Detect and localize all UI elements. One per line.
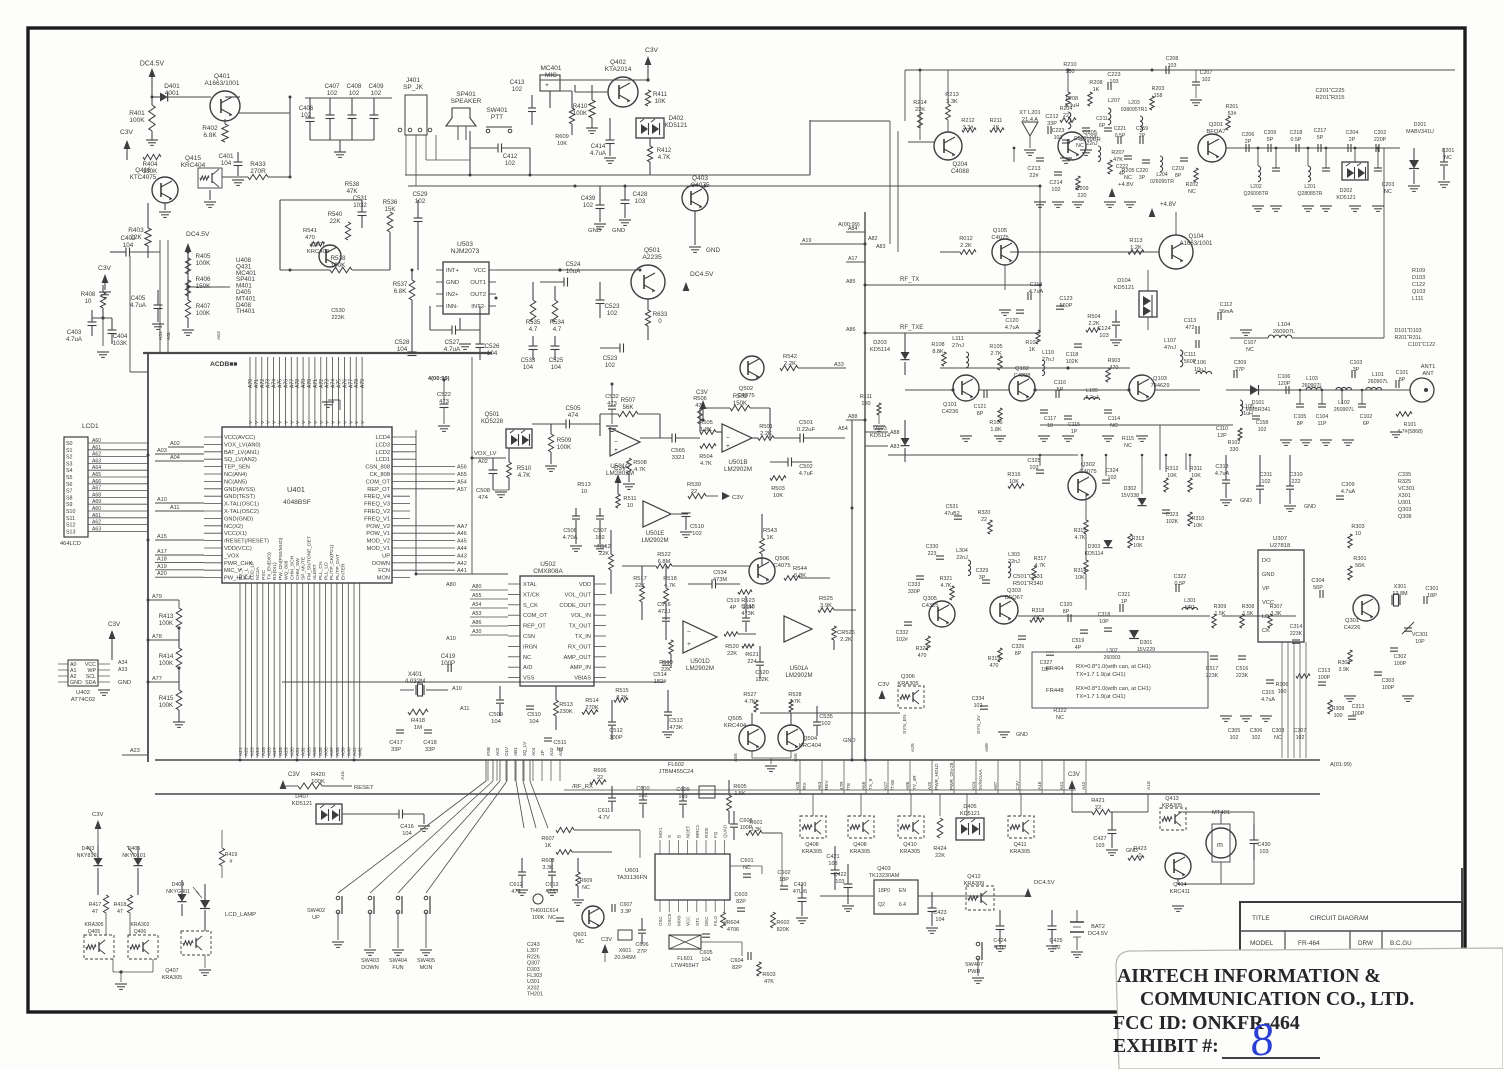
svg-text:C612: C612 [509,882,522,888]
resistor R525 [818,608,834,613]
svg-text:NC: NC [548,915,556,921]
svg-text:C419: C419 [441,653,456,660]
svg-text:S9: S9 [66,502,73,508]
svg-text:EN: EN [899,888,906,894]
capacitor C116 [1055,390,1057,398]
svg-text:Q403: Q403 [877,866,890,872]
resistor R107 [1036,330,1040,344]
svg-text:102: 102 [974,703,983,709]
resistor R609 [576,872,580,886]
svg-text:A65: A65 [861,781,866,790]
svg-text:A61: A61 [92,445,101,451]
transistor Q205 FET [1058,132,1086,160]
svg-text:A79: A79 [152,594,162,600]
svg-text:C103: C103 [1350,360,1363,366]
svg-text:102: 102 [327,90,338,97]
diode D302 [1138,498,1147,506]
svg-text:A41: A41 [352,747,358,756]
svg-text:Q601: Q601 [573,932,586,938]
svg-text:1K: 1K [1093,87,1100,93]
ground rf out [1280,439,1292,441]
svg-text:A38: A38 [335,747,341,756]
svg-text:A83: A83 [876,244,885,250]
svg-text:SW404: SW404 [389,958,407,964]
svg-text:103: 103 [1095,843,1104,849]
svg-text:0.5P: 0.5P [1291,137,1302,143]
diode pack D104 [1139,291,1157,317]
svg-text:KD5114: KD5114 [1085,551,1104,557]
svg-text:L104: L104 [1278,322,1291,328]
svg-text:VDD: VDD [579,582,591,588]
svg-text:260907L: 260907L [1368,379,1389,385]
svg-text:R544: R544 [793,566,808,572]
svg-text:S1: S1 [66,448,73,454]
svg-text:C530: C530 [331,308,345,314]
wire U401 left stubs A10 A11 [155,502,204,504]
svg-text:10: 10 [581,489,587,495]
resistor R315 [1084,520,1088,534]
resistor R213 [946,104,951,120]
svg-text:SP401: SP401 [456,91,476,98]
svg-text:C413: C413 [510,79,525,86]
svg-text:S4: S4 [66,468,73,474]
inductor L106 [1196,371,1212,374]
transistor Q301 [1353,595,1379,621]
capacitor C217 [1317,144,1319,152]
svg-text:332J: 332J [672,455,685,461]
capacitor C114 [1104,409,1112,411]
svg-text:C214: C214 [1049,180,1062,186]
ground Q415 [209,190,211,200]
svg-text:D301: D301 [1140,640,1153,646]
svg-text:C313: C313 [1215,464,1228,470]
svg-text:R609: R609 [580,878,593,884]
svg-text:PTT: PTT [491,114,503,121]
capacitor C112 [1217,312,1219,320]
svg-text:R415: R415 [159,695,174,702]
capacitor C202 [1375,144,1377,152]
svg-text:D303: D303 [527,967,540,973]
svg-text:AMP_OUT: AMP_OUT [564,655,592,661]
svg-text:R303: R303 [1351,524,1364,530]
op-amp U501D [683,621,717,653]
svg-text:A66: A66 [92,479,101,485]
wire pll top rail [888,454,1460,456]
svg-text:R501˜R340: R501˜R340 [1013,581,1044,587]
svg-text:R518: R518 [663,576,677,582]
resistor R207 [1108,160,1112,174]
svg-text:DOWN: DOWN [361,965,378,971]
capacitor C331 [954,515,962,517]
svg-text:R604: R604 [726,920,739,926]
svg-text:VP: VP [1262,586,1270,592]
bus bottom rail lower [155,793,1320,795]
svg-text:A77: A77 [152,676,162,682]
svg-text:56K: 56K [623,404,634,411]
svg-text:15K: 15K [385,206,396,213]
ground RF mid [960,435,972,437]
svg-text:A33: A33 [834,362,844,368]
svg-text:C111: C111 [1184,352,1196,358]
capacitor C213 [1036,157,1044,159]
svg-text:3P: 3P [979,575,986,581]
svg-text:C309: C309 [1341,482,1354,488]
svg-text:103: 103 [1109,79,1118,85]
svg-text:2.2K: 2.2K [960,243,972,249]
resistor R301 [1348,566,1352,580]
svg-text:3P: 3P [1139,175,1146,181]
svg-text:FR-464: FR-464 [1298,940,1320,947]
svg-text:R201: R201 [1226,104,1239,110]
wire top right rail verticals [889,121,891,244]
resistor R302 [1348,650,1352,664]
resistor R541 [310,242,324,247]
capacitor C316 [1238,655,1246,657]
svg-text:224: 224 [747,659,757,665]
transistor Q405 box [84,935,114,959]
capacitor C333 [916,575,924,577]
svg-text:CK_808: CK_808 [369,472,390,478]
svg-text:100K: 100K [196,260,212,267]
svg-text:FUN: FUN [392,965,403,971]
svg-text:TV_3R: TV_3R [912,775,917,790]
svg-text:470: 470 [918,653,927,659]
capacitor C430 [1250,839,1259,841]
svg-text:NC: NC [1384,189,1392,195]
svg-text:LCD1: LCD1 [82,423,99,430]
svg-text:R106: R106 [989,420,1002,426]
svg-text:R401: R401 [129,110,145,117]
svg-text:102: 102 [1258,427,1267,433]
svg-text:COMMUNICATION CO., LTD.: COMMUNICATION CO., LTD. [1140,988,1414,1010]
svg-text:S6: S6 [66,482,73,488]
svg-text:18P: 18P [1427,593,1437,599]
svg-text:22nJ: 22nJ [956,555,968,561]
svg-text:C417: C417 [389,740,403,746]
capacitor C103 [1351,370,1353,378]
bus U401 top vertical lines [249,357,251,390]
transistor Q415 KRC404 [198,168,222,188]
capacitor C409 [373,98,375,115]
svg-text:A25: A25 [261,747,267,756]
svg-text:C3V: C3V [1015,780,1020,790]
svg-text:3.9K: 3.9K [820,603,832,609]
svg-text:100K: 100K [196,310,210,317]
svg-text:R540: R540 [328,211,343,218]
svg-text:103: 103 [1099,333,1109,339]
transistor Q201 [1198,134,1226,162]
capacitor C418 [424,729,432,731]
svg-text:Q502: Q502 [739,386,753,392]
svg-text:R203: R203 [1152,86,1165,92]
transistor Q408 box [800,816,826,838]
svg-text:C509: C509 [489,712,503,718]
svg-text:CMX808A: CMX808A [533,568,563,575]
svg-text:2.7K: 2.7K [789,699,801,705]
svg-text:R433: R433 [250,161,266,168]
svg-text:OUT1: OUT1 [470,280,486,286]
svg-text:R405: R405 [195,253,211,260]
svg-text:A30: A30 [289,747,295,756]
svg-text:C519: C519 [726,598,739,604]
diode LCD lamp led [200,900,210,909]
transistor Q504 KRC404 [778,725,804,751]
svg-text:VCC(X1): VCC(X1) [224,531,247,537]
svg-text:Q415: Q415 [185,155,201,162]
svg-text:47: 47 [92,909,98,915]
svg-text:223: 223 [928,551,937,557]
svg-text:GND: GND [1304,504,1316,510]
svg-text:1P: 1P [1071,429,1078,435]
svg-text:C334: C334 [972,696,985,702]
svg-text:C508: C508 [476,488,491,494]
svg-text:103K: 103K [113,340,127,347]
svg-text:CHM_SCH: CHM_SCH [289,555,295,580]
svg-text:D101˜D103: D101˜D103 [1394,328,1421,334]
inductor L204 [1160,156,1163,172]
svg-text:R212: R212 [961,118,974,124]
svg-text:POW_V2: POW_V2 [366,524,390,530]
resistor R318 [1030,618,1044,622]
svg-text:C309: C309 [1234,360,1247,366]
wire RF mid rails [905,389,953,391]
svg-text:C614: C614 [546,908,559,914]
svg-text:NC: NC [1076,143,1084,149]
svg-text:A04: A04 [531,747,536,756]
svg-text:Q303: Q303 [1007,588,1021,594]
svg-text:PW_ON(P00/MUD): PW_ON(P00/MUD) [278,537,284,580]
svg-text:D401: D401 [164,83,180,90]
svg-text:4.7uA: 4.7uA [444,346,461,353]
svg-text:C3V: C3V [732,495,744,501]
resistor R543 [760,538,765,554]
svg-text:A45: A45 [457,539,467,545]
svg-text:R520: R520 [725,644,739,650]
svg-text:4P: 4P [730,605,737,611]
svg-text:C112: C112 [1220,302,1233,308]
svg-text:TH201: TH201 [527,992,543,998]
svg-text:CHM_SW: CHM_SW [295,558,301,580]
svg-text:LM2902M: LM2902M [641,537,668,544]
resistor R518 [664,588,669,604]
svg-text:A21: A21 [238,747,244,756]
svg-text:C405: C405 [131,295,146,302]
inductor L105 [1240,400,1243,416]
svg-text:C501˜C531: C501˜C531 [1013,574,1043,580]
svg-text:TH601: TH601 [530,908,546,914]
svg-text:C3V: C3V [696,389,709,396]
svg-text:C313: C313 [1318,668,1331,674]
svg-text:D203: D203 [873,340,887,346]
svg-text:Q408: Q408 [805,842,818,848]
title block table [1240,902,1462,952]
svg-text:4.7K: 4.7K [941,583,952,589]
wire R315 chain [1085,494,1087,520]
svg-text:100: 100 [1334,713,1343,719]
svg-text:1032: 1032 [353,202,367,209]
svg-text:22: 22 [1063,113,1069,119]
svg-text:R105: R105 [989,344,1002,350]
svg-text:R528: R528 [788,692,801,698]
svg-text:4.7uF: 4.7uF [799,471,814,477]
svg-text:R410: R410 [573,103,588,110]
svg-text:A34: A34 [312,747,318,756]
svg-text:C305: C305 [1228,728,1241,734]
svg-text:m: m [1217,842,1223,849]
svg-text:LM2902M: LM2902M [724,466,752,473]
svg-text:A37: A37 [329,747,335,756]
svg-text:R311: R311 [1190,466,1203,472]
svg-text:R111: R111 [860,394,872,400]
svg-text:0.5P: 0.5P [1115,133,1126,139]
svg-text:A25: A25 [910,743,916,752]
wires pll verticals down to bus [1281,642,1283,758]
svg-text:U402: U402 [76,690,90,696]
svg-text:5P: 5P [1267,137,1274,143]
svg-text:R537: R537 [393,281,408,288]
svg-text:12.8M: 12.8M [1392,591,1408,597]
svg-text:A00: A00 [495,747,500,756]
svg-text:SW407: SW407 [965,962,983,968]
svg-text:A60: A60 [92,506,101,512]
svg-text:D103: D103 [873,426,887,432]
svg-text:KRA305: KRA305 [1162,803,1183,809]
resistor R101 [1396,412,1412,417]
capacitor C102 [1358,403,1366,405]
svg-text:KD5121: KD5121 [1336,195,1355,201]
svg-text:KRC404: KRC404 [724,723,747,729]
wire LCD pin links [410,436,416,438]
svg-text:FL601: FL601 [677,956,693,962]
svg-text:NC: NC [1124,175,1132,181]
wire U401 left stub A03 A04 [155,453,204,455]
svg-text:C531: C531 [946,504,959,510]
svg-text:L105: L105 [1242,404,1254,410]
svg-text:4.7K: 4.7K [1035,563,1046,569]
transistor Q401 [210,91,240,121]
svg-text:R113: R113 [1129,238,1142,244]
svg-text:X-TAL(OSC1): X-TAL(OSC1) [224,502,259,508]
svg-text:1.8K: 1.8K [700,427,712,433]
svg-text:TK13230AM: TK13230AM [869,873,900,879]
capacitor C206 [1245,144,1247,152]
svg-text:C565: C565 [671,448,686,454]
svg-text:C4325: C4325 [922,603,939,609]
capacitor C312 [1348,715,1356,717]
svg-text:R209: R209 [1075,186,1088,192]
svg-text:TX_EN(DIO): TX_EN(DIO) [267,552,273,580]
resistor R433 [248,174,268,179]
svg-text:A44: A44 [457,546,467,552]
svg-text:C3V: C3V [601,937,612,943]
svg-text:36mA: 36mA [1219,309,1234,315]
svg-text:102: 102 [512,86,523,93]
svg-text:C523: C523 [604,303,620,310]
capacitor C111 [1195,340,1197,348]
svg-text:C404: C404 [113,333,128,340]
svg-text:A40: A40 [346,747,352,756]
svg-text:6.8K: 6.8K [203,132,217,139]
svg-text:C223: C223 [1107,72,1120,78]
svg-text:D302: D302 [1124,486,1137,492]
svg-text:A/D: A/D [523,665,532,671]
svg-text:104: 104 [935,917,944,923]
resistor R402 [222,124,228,142]
svg-text:#SB: #SB [486,747,491,756]
svg-text:102: 102 [371,90,382,97]
capacitor C223 [1062,139,1070,141]
resistor R421 [1092,809,1110,814]
svg-text:4P: 4P [1119,171,1126,177]
capacitor C520 [756,661,764,663]
svg-text:R418: R418 [114,902,127,908]
svg-text:Q504: Q504 [803,736,818,742]
svg-text:NC(X2): NC(X2) [224,524,243,530]
capacitor C513 [664,711,672,713]
ground cluster pll right [1220,715,1232,717]
svg-text:LCD_LAMP: LCD_LAMP [225,912,256,918]
bus U401 bottom vertical lines to bottom rail [239,620,241,758]
ic U401 right pins [392,436,410,438]
resistor R108 [942,352,946,366]
resistor R515z [614,698,628,702]
resistor R511z [616,494,620,508]
svg-text:102: 102 [505,160,516,167]
svg-text:ENTER: ENTER [341,563,347,580]
svg-text:A02: A02 [170,441,180,447]
bus stub A88 [846,419,865,421]
svg-text:Q2: Q2 [878,902,885,908]
svg-text:R513: R513 [559,702,573,708]
svg-text:C516: C516 [1236,666,1249,672]
svg-text:BFQ67: BFQ67 [1005,595,1023,601]
diode D301 [1129,630,1139,639]
svg-text:LCD3: LCD3 [375,442,390,448]
resistor R203 [1150,96,1154,110]
inductor L103 [1306,387,1322,390]
svg-text:R115: R115 [1122,436,1134,442]
resistor R316 [1008,484,1024,489]
bus stub A84 [846,231,865,233]
wire RF row rail [1226,147,1400,149]
wire Q506 base [672,565,749,567]
svg-text:82P: 82P [732,965,742,971]
svg-text:A79: A79 [360,379,366,388]
svg-text:102: 102 [1230,735,1239,741]
wire net labels A47-A41 [410,525,455,527]
svg-text:GND: GND [843,738,856,744]
svg-text:8P: 8P [1175,173,1182,179]
svg-text:470: 470 [990,663,999,669]
svg-text:100P: 100P [609,735,622,741]
capacitor C523 [596,299,605,301]
svg-text:R507: R507 [621,397,636,404]
svg-text:Q303: Q303 [1398,507,1411,513]
svg-text:104: 104 [523,364,534,371]
svg-text:R109: R109 [1412,268,1425,274]
svg-text:A(01:99): A(01:99) [1330,762,1352,768]
svg-text:A23: A23 [130,748,140,754]
svg-text:C4075: C4075 [737,393,755,399]
svg-text:R602: R602 [776,920,789,926]
svg-text:A20: A20 [927,781,932,790]
svg-text:R512: R512 [597,544,611,550]
inductor L202 [1258,166,1261,182]
wire U502 left stubs labels [470,589,508,591]
svg-text:KRA302: KRA302 [131,922,150,928]
resistor R412 [647,146,652,162]
svg-text:A42: A42 [358,747,364,756]
